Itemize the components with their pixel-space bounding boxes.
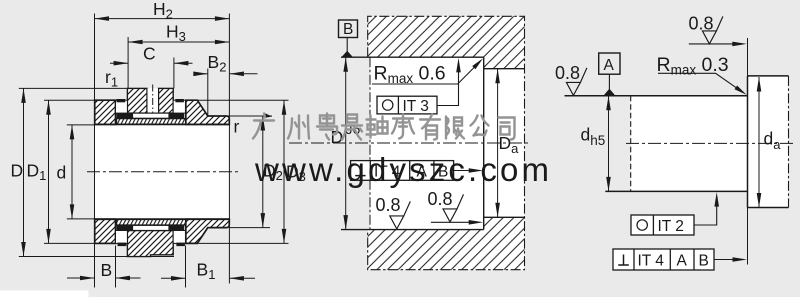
shaft top edge [565, 95, 748, 97]
ext line roller left [127, 37, 129, 88]
axial roller upper right [159, 88, 174, 113]
watermark char guang [253, 114, 274, 139]
outer ring lower (hatched with flange) [186, 219, 230, 243]
shaft bottom edge [605, 190, 747, 192]
watermark char zhou2 [367, 116, 388, 138]
flange top edge [748, 75, 789, 77]
housing bore bottom edge [341, 229, 484, 231]
dim line D J6 [345, 57, 347, 229]
bearing shaft washer lower (hatched) [95, 219, 116, 243]
dim line dh5 [608, 96, 610, 192]
dim line H2 [95, 18, 230, 20]
flange face ext down [747, 208, 749, 265]
watermark char xian [446, 117, 464, 139]
bore line lower [95, 218, 230, 220]
axial roller upper left [127, 88, 147, 113]
dim line D1 [48, 100, 50, 243]
retainer black upper right [169, 113, 184, 119]
housing open side phantom [369, 57, 371, 229]
watermark char gong [471, 116, 489, 136]
bearing bore interior [95, 124, 230, 219]
dim line Da [497, 69, 499, 218]
seal cap upper left [117, 99, 126, 102]
ext line ring right face [228, 14, 230, 284]
Rmax 0.6 leader [372, 61, 481, 84]
svg-text:D: D [11, 161, 24, 181]
arrows B1 [171, 276, 186, 281]
needle sleeve strip lower [117, 219, 186, 225]
retainer black lower right [169, 225, 184, 231]
arrows H3 [128, 40, 143, 45]
ext line D3 bottom [197, 242, 288, 244]
seal cap upper right [175, 99, 184, 102]
ext line D1 top [44, 99, 95, 101]
shoulder leader [431, 221, 476, 223]
dim line da [758, 77, 760, 208]
circularity frame IT3 [377, 96, 437, 114]
watermark char cheng [392, 115, 414, 139]
arrows B [80, 276, 95, 281]
svg-text:C: C [143, 44, 156, 64]
watermark char yue [317, 114, 337, 140]
seal cap lower left [118, 243, 127, 247]
roller gap white [148, 88, 159, 113]
watermark char sheng [342, 115, 362, 140]
dim line B1 [161, 277, 186, 279]
IT3 leader [437, 65, 459, 106]
IT4 leader [454, 170, 476, 172]
housing bore interior [370, 57, 484, 229]
arrows D1 [46, 100, 51, 115]
cage pocket lower right [173, 231, 186, 244]
cage pocket upper left [116, 100, 128, 113]
dim line D [23, 88, 25, 256]
dim line C [110, 62, 128, 64]
svg-text:0.8: 0.8 [555, 63, 580, 83]
needle sleeve strip upper [117, 119, 186, 125]
housing bore top edge [341, 56, 484, 58]
arrows d [70, 125, 75, 139]
flange face ext up [747, 38, 749, 76]
retainer black lower left [117, 225, 133, 231]
datum stem A [608, 74, 610, 90]
svg-text:B: B [699, 253, 709, 270]
shaft flange [748, 76, 789, 208]
ext line D bottom [19, 256, 174, 258]
arrows D3 [282, 100, 287, 115]
shaft break line left [630, 96, 632, 192]
shaft centerline [626, 142, 793, 144]
ext line D1 bottom [44, 242, 95, 244]
dim line D3 [283, 100, 285, 243]
svg-text:B: B [101, 260, 113, 280]
ext line d bottom [67, 218, 95, 220]
perpendicularity frame IT4 A B [351, 161, 454, 181]
svg-text:0.8: 0.8 [376, 195, 401, 215]
arrows D2 [261, 116, 266, 131]
svg-text:IT 4: IT 4 [638, 253, 665, 270]
svg-text:0.8: 0.8 [428, 189, 453, 209]
svg-text:r: r [234, 117, 240, 137]
roller centerline [152, 85, 154, 121]
ext line d top [67, 124, 95, 126]
arrows H2 [95, 16, 110, 21]
svg-text:IT 2: IT 2 [658, 218, 684, 235]
ext line D2 bottom [229, 227, 270, 229]
ext line washer left [94, 14, 96, 288]
datum triangle B [342, 51, 353, 57]
ext line D top [19, 87, 128, 89]
datum stem B [346, 38, 348, 54]
ext line B right [115, 246, 117, 288]
bearing shaft washer upper (hatched) [95, 100, 116, 124]
watermark char zhou [288, 116, 309, 139]
svg-text:B: B [343, 21, 353, 38]
datum frame B [339, 20, 358, 38]
housing shoulder notch interior [484, 69, 525, 218]
cage pocket upper right [173, 100, 186, 113]
white corner strip [0, 291, 89, 297]
main centerline [87, 171, 240, 173]
arrows D [21, 88, 26, 103]
dim line B2 [195, 73, 208, 75]
housing centerline [289, 142, 530, 144]
Rmax 0.3 leader [658, 73, 742, 91]
housing upper section (hatched) [368, 16, 525, 68]
arrows B2 [193, 72, 208, 77]
ext line flange left [207, 69, 209, 117]
svg-text:www.gdyszc.com: www.gdyszc.com [254, 151, 549, 188]
flange left face [747, 76, 749, 208]
watermark char si [499, 118, 515, 140]
ext line B1 left [185, 246, 187, 288]
watermark char you [420, 115, 440, 140]
housing shoulder top face [484, 68, 525, 70]
dim line d [71, 125, 73, 219]
ext line roller right [173, 58, 175, 89]
ext line D2 top [208, 115, 272, 117]
svg-text:IT 3: IT 3 [403, 98, 429, 115]
seal cap lower right [176, 243, 185, 247]
thrust washer band upper [133, 113, 170, 118]
dim line H3 [128, 41, 229, 43]
circularity frame IT2 [631, 215, 694, 235]
housing outline phantom top [368, 16, 525, 269]
IT2 leader [694, 199, 717, 226]
svg-text:d: d [57, 163, 67, 183]
shaft body [631, 96, 748, 192]
retainer black upper left [117, 113, 133, 119]
thrust washer band lower [133, 225, 170, 230]
arrows C [114, 61, 129, 66]
housing shoulder bottom face [484, 216, 525, 218]
svg-text:A: A [604, 57, 615, 74]
axial roller lower block [127, 231, 173, 257]
ext line D3 top [197, 99, 288, 101]
svg-text:A: A [677, 253, 688, 270]
cage pocket lower left [116, 231, 128, 244]
bore line upper [95, 123, 230, 125]
flange face leader [689, 43, 740, 45]
datum triangle A [604, 89, 616, 96]
dim line B [67, 277, 95, 279]
dim line D2 [262, 116, 264, 228]
datum frame A [599, 53, 620, 74]
housing bore wall [483, 57, 485, 229]
IT4 right leader [714, 259, 740, 261]
perpendicularity frame IT4 A B right [613, 249, 714, 270]
flange break line right [788, 76, 790, 208]
flange bottom edge [748, 207, 789, 209]
outer ring upper (hatched with flange) [186, 100, 230, 124]
housing lower section (hatched) [368, 217, 525, 269]
r leader arrow [264, 113, 272, 118]
